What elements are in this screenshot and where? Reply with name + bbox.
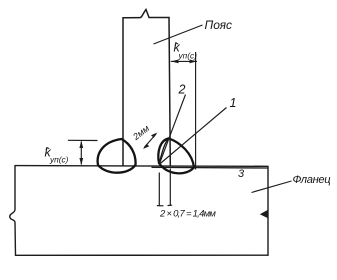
svg-text:уп(с): уп(с) (49, 155, 69, 165)
svg-text:1: 1 (230, 96, 237, 110)
svg-text:2: 2 (178, 83, 186, 97)
svg-text:Фланец: Фланец (293, 174, 332, 186)
svg-text:уп(с): уп(с) (178, 51, 198, 61)
svg-text:2 × 0,7 = 1,4мм: 2 × 0,7 = 1,4мм (159, 209, 216, 220)
svg-text:Пояс: Пояс (205, 18, 233, 32)
svg-text:3: 3 (238, 168, 245, 180)
